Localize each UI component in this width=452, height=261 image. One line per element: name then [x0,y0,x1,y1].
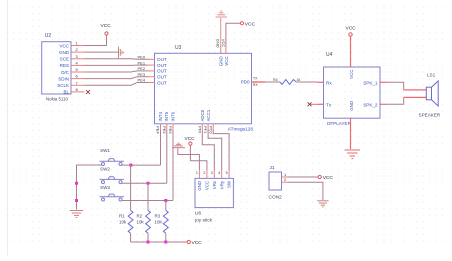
junction row1/R1 [129,164,132,167]
power symbol VCC (U2) [101,23,112,35]
U6 pin numbers 1-5 [196,171,228,175]
wire SPK_1 to speaker [386,82,404,90]
power symbol VCC (pull-up rail) [187,240,202,246]
svg-text:PF1: PF1 [203,126,208,134]
svg-text:GND: GND [59,50,70,55]
svg-text:SW2: SW2 [100,167,110,172]
wire U4 VCC up to VCC symbol [350,36,352,67]
wire joystick VCC up to VCC symbol [190,145,207,171]
audio player module U4 [324,52,381,126]
wire SPK_1 red segment [404,89,426,91]
svg-text:SCE: SCE [60,57,69,62]
svg-text:VCC: VCC [224,55,229,65]
power symbol VCC (joystick) [185,136,196,145]
joystick module U6 [194,178,233,223]
svg-text:D/C: D/C [61,70,70,75]
svg-text:LS1: LS1 [427,73,436,78]
svg-text:U2: U2 [45,33,52,39]
U3 right stub PD0 (red) [252,81,266,83]
svg-text:Tx: Tx [326,102,332,107]
svg-text:5: 5 [226,171,228,175]
svg-text:GND: GND [349,101,354,111]
svg-text:4: 4 [218,171,220,175]
svg-text:2: 2 [203,171,205,175]
MCU U3 [155,45,254,131]
wire PE4 vertical to row1 [160,130,162,165]
wire R4 to Rx [296,81,317,83]
no-connect X on Tx [308,102,312,106]
wire D/C / net PE2 [85,71,149,72]
wire Tx no-connect [310,103,318,105]
svg-text:SCLK: SCLK [57,83,69,88]
svg-text:OUT: OUT [157,75,167,80]
svg-text:VCC: VCC [349,70,354,79]
svg-text:VCC: VCC [101,23,112,29]
junction rail/row3 [75,199,78,202]
junction rail/row2 [75,182,78,185]
svg-text:VRx: VRx [212,180,217,189]
svg-text:PE2: PE2 [138,66,146,71]
power symbol VCC (U3) [240,21,255,27]
svg-text:SW: SW [227,180,232,188]
ground (left rail, bars down) [70,211,84,218]
svg-text:INT6: INT6 [170,111,175,121]
wire U2 pin2 to ground [85,51,119,53]
svg-text:GND: GND [197,181,202,191]
wire PE5 vertical to row2 [166,130,168,183]
wire SW3 row (row3) [122,200,173,202]
pushbutton SW2 [100,167,125,184]
wire PD0 to R4 [265,81,280,83]
svg-text:SW1: SW1 [100,148,110,153]
wire ACC1 to VRy [208,130,222,171]
svg-text:OUT: OUT [157,57,167,62]
svg-text:SDIN: SDIN [58,76,69,81]
svg-text:PE6: PE6 [168,126,173,134]
ground (joystick, bars up) [172,143,185,148]
U2 pin stubs 1-8 [71,46,85,92]
svg-text:VCC: VCC [205,181,210,190]
wire U4 GND down to ground [350,118,352,149]
U6 pin stubs [199,171,229,179]
wire SCE / net PE0 [85,58,149,61]
svg-text:R4: R4 [273,78,278,82]
LCD module U2 [42,33,71,102]
svg-text:PE4: PE4 [156,126,161,134]
wire ADC0 to VRx [202,130,214,171]
svg-text:Nokia 5110: Nokia 5110 [46,97,68,102]
wire left rail from SW row1 down to ground [77,165,103,210]
svg-text:10K: 10K [155,220,163,225]
svg-text:PD0: PD0 [241,80,250,85]
svg-text:U6: U6 [195,211,201,217]
svg-text:J1: J1 [270,165,275,171]
wire RES / net PE1 [85,64,149,66]
svg-text:BL: BL [63,90,69,95]
wire U3 VCC pin to VCC symbol [226,23,240,46]
svg-text:PF0: PF0 [197,126,202,134]
power symbol VCC (U4) [346,26,357,37]
svg-text:DFPLAYER: DFPLAYER [327,121,352,126]
svg-text:VCC: VCC [245,21,256,27]
svg-text:GND: GND [218,55,223,66]
svg-text:OUT: OUT [157,63,167,68]
pushbutton SW1 [100,148,125,166]
svg-text:INT4: INT4 [158,111,163,121]
svg-text:SPK_1: SPK_1 [363,80,378,85]
svg-text:PE1: PE1 [138,60,146,65]
svg-text:R2: R2 [137,214,143,219]
wire SW2 row (row2) [122,182,167,184]
svg-text:10k: 10k [119,220,127,225]
wire joystick GND up to ground [178,148,200,171]
svg-text:R3: R3 [155,214,161,219]
svg-text:VCC: VCC [323,175,334,181]
resistor R4 (horizontal) [273,78,300,84]
svg-text:PE0: PE0 [138,55,146,60]
U4 SPK_2 stub [380,103,386,105]
svg-text:PE4: PE4 [138,78,146,83]
junction rail/R3 [164,241,167,244]
ground (U3 top GND, bars up) [216,11,228,17]
wire SPK_2 red segment [404,96,426,98]
svg-text:R1: R1 [119,214,125,219]
svg-text:GND: GND [216,39,221,48]
J1 pin stubs [282,177,289,182]
svg-text:INT5: INT5 [164,111,169,121]
wire J1 pin1 to VCC [288,176,318,178]
wire PC0 to SW [213,130,229,171]
connector J1 [269,165,283,201]
wire SCLK / net PE4 [85,83,149,86]
svg-text:RX: RX [253,83,258,87]
svg-text:VCC: VCC [185,136,196,142]
speaker LS1 [419,73,441,118]
svg-text:joy stick: joy stick [194,218,213,224]
U2 pin numbers [76,41,79,92]
svg-text:OUT: OUT [157,69,167,74]
ground (U4, bars down) [345,150,361,159]
svg-text:10k: 10k [137,220,145,225]
U3 top pin stubs GND VCC [221,47,226,54]
svg-text:SW3: SW3 [100,185,110,190]
junction rail/R2 [147,241,150,244]
svg-text:1k: 1k [297,78,301,82]
svg-text:PE5: PE5 [162,126,167,134]
svg-text:OUT: OUT [157,80,167,85]
svg-text:VCC: VCC [346,26,357,32]
power symbol VCC (J1) [318,175,333,181]
wire SDIN / net PE3 [85,77,149,79]
svg-text:3: 3 [211,171,213,175]
svg-text:TX: TX [253,77,258,81]
wire SPK_2 to speaker [386,97,404,104]
U4 Tx stub [318,103,324,105]
svg-text:ADC0: ADC0 [200,109,205,121]
U4 Rx stub [318,81,324,83]
svg-text:VRy: VRy [219,180,224,189]
svg-text:U3: U3 [175,45,182,51]
svg-text:VCC: VCC [59,43,69,48]
resistor R3 10K [155,201,169,243]
svg-text:Rx: Rx [326,80,332,85]
U4 SPK_1 stub [380,81,386,83]
wire U2 pin1 to VCC [85,35,107,46]
ground (sideways, U2 GND) [119,47,124,59]
wire PE6 vertical to row3 [172,130,174,201]
no-connect X on U2 BL [86,90,90,94]
svg-text:1: 1 [196,171,198,175]
ground (J1, bars down) [317,201,328,207]
pushbutton SW3 [100,185,125,201]
resistor R1 10k [119,165,133,242]
U3 bottom-left stubs PE4 PE5 PE6 [161,124,174,130]
svg-text:SPK_2: SPK_2 [363,102,378,107]
svg-text:CON2: CON2 [269,195,283,201]
wire J1 pin2 to ground [288,182,323,200]
wire SW1 row (row1) [122,164,161,166]
junction row2/R2 [147,182,150,185]
resistor R2 10k [137,183,151,242]
svg-text:SPEAKER: SPEAKER [419,113,441,118]
junction row3/R3 [164,199,167,202]
U3 bottom-center stubs PF0 PF1 PC0 [202,124,213,130]
wire U3 GND pin up [220,18,222,47]
wire bottom rail to VCC [131,241,187,243]
svg-text:ACC1: ACC1 [206,109,211,121]
svg-text:PE3: PE3 [138,72,146,77]
U3 left pin stubs [148,59,155,82]
svg-text:ATmega128: ATmega128 [228,126,254,131]
svg-text:VCC: VCC [192,240,203,246]
svg-text:VCC: VCC [221,39,226,48]
J1 pin numbers [284,172,287,182]
svg-text:RES: RES [60,63,69,68]
svg-text:U4: U4 [326,52,333,58]
